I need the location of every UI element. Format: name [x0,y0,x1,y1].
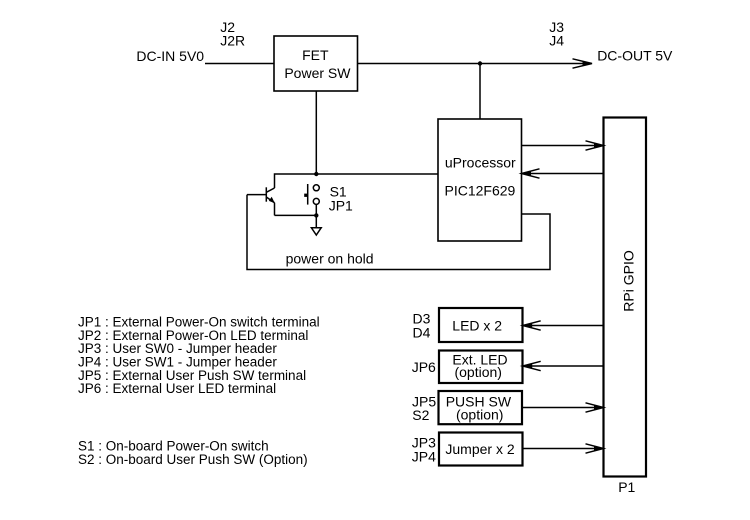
svg-text:S2: S2 [412,407,429,423]
wire power on hold loop [247,195,550,270]
arrowhead to uProcessor [522,169,540,178]
svg-text:JP1: JP1 [329,197,353,213]
switch S1 pushbutton [304,184,319,205]
svg-text:S2 : On-board User Push SW (Op: S2 : On-board User Push SW (Option) [78,452,308,467]
arrowhead to GPIO [586,141,604,150]
wire transistor base [247,194,266,196]
svg-text:JP6 : External User LED termin: JP6 : External User LED terminal [78,381,276,396]
wire GPIO to Ext LED block [523,365,604,367]
svg-text:Power SW: Power SW [284,65,351,81]
svg-text:DC-OUT 5V: DC-OUT 5V [597,47,673,63]
wire GPIO to LED block [523,325,604,327]
wire FET output 5V rail [358,63,592,65]
svg-text:RPi GPIO: RPi GPIO [621,250,637,312]
uProcessor U1 PIC12F629 [438,119,522,241]
svg-text:(option): (option) [456,406,503,422]
wire uProcessor to GPIO [522,145,604,147]
svg-text:P1: P1 [618,479,635,495]
wire gate node to transistor collector [275,174,317,188]
svg-text:DC-IN 5V0: DC-IN 5V0 [136,48,204,64]
wire emitter to ground junction [275,214,317,216]
svg-text:JP4: JP4 [412,448,436,464]
wire 5V rail to uProcessor [479,64,481,120]
transistor Q1 [266,187,275,215]
wire Jumper block to GPIO [523,448,604,450]
svg-text:Jumper x 2: Jumper x 2 [445,441,514,457]
junction ground node [314,213,318,217]
svg-text:J4: J4 [549,32,564,48]
Ext LED block JP6 [439,351,523,384]
svg-text:D4: D4 [413,324,431,340]
wire switch to ground junction [315,204,317,215]
svg-text:JP6: JP6 [412,359,436,375]
svg-text:PIC12F629: PIC12F629 [444,182,515,198]
svg-text:(option): (option) [454,364,501,380]
junction 5V rail [478,61,482,65]
svg-text:power on hold: power on hold [286,251,374,267]
junction gate node [314,172,318,176]
arrowhead DC-OUT [573,59,593,68]
RPi GPIO connector P1 [604,118,647,477]
LED block D3 D4 [439,308,523,342]
svg-text:J2R: J2R [220,32,245,48]
wire PUSH SW block to GPIO [522,407,604,409]
arrowhead to GPIO from PUSH SW [586,403,604,412]
ground [311,215,321,235]
wire DC-IN to FET input [205,63,274,65]
FET power switch block [274,36,358,91]
wire GPIO to uProcessor [522,173,604,175]
wire FET control down to gate node [315,91,317,174]
arrowhead to GPIO from Jumper [586,444,604,453]
svg-text:LED x 2: LED x 2 [452,318,502,334]
Jumper block JP3 JP4 [439,433,523,466]
svg-text:uProcessor: uProcessor [445,154,516,170]
arrowhead to Ext LED block [523,361,541,370]
PUSH SW block JP5 S2 [439,391,523,424]
wire gate node to uProcessor input [316,173,438,175]
svg-text:FET: FET [302,47,329,63]
arrowhead to LED block [523,321,541,330]
